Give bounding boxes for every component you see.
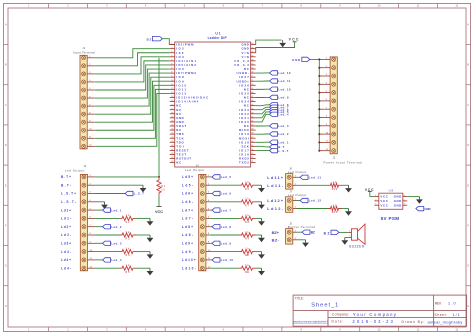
wire U1 to net Led_12 <box>256 72 270 74</box>
net flag L.S.T <box>125 191 144 195</box>
svg-text:Led_9: Led_9 <box>221 242 232 246</box>
svg-text:Ld8+: Ld8+ <box>182 225 193 229</box>
svg-text:GND: GND <box>394 203 401 207</box>
svg-text:R4: R4 <box>126 254 131 257</box>
svg-text:GND: GND <box>425 207 432 211</box>
net flag Led_11 <box>270 79 291 83</box>
svg-text:Led_3: Led_3 <box>111 242 122 246</box>
wire R2 to ground <box>136 217 150 219</box>
svg-text:29: 29 <box>171 157 173 159</box>
net flag Led_4 <box>103 258 122 262</box>
wire R10 to ground <box>256 251 262 253</box>
svg-text:45: 45 <box>251 104 253 106</box>
connector J3 Led Output <box>80 174 94 270</box>
ground R4 <box>147 252 154 259</box>
svg-text:Ld5+: Ld5+ <box>182 175 193 179</box>
wire U1 to net Led_10 <box>256 88 270 90</box>
wire BZ+ <box>297 231 303 233</box>
wire Ld12- <box>297 208 328 210</box>
svg-text:Ld3+: Ld3+ <box>61 242 71 246</box>
resistor R12 <box>328 181 342 191</box>
svg-text:53: 53 <box>251 72 253 74</box>
wire BZ to buzzer <box>339 231 348 233</box>
label J3 <box>65 164 87 173</box>
resistor R2 <box>119 214 136 224</box>
svg-text:18: 18 <box>171 112 173 114</box>
wire Ld4+ <box>95 259 103 261</box>
svg-text:A: A <box>467 23 469 27</box>
ground R10 <box>258 252 265 259</box>
wire Ld2- <box>95 234 119 236</box>
svg-text:60: 60 <box>251 43 253 45</box>
svg-text:28: 28 <box>171 153 173 155</box>
svg-text:H: H <box>467 304 469 308</box>
resistor R7 <box>239 198 256 208</box>
ground R2 <box>147 218 154 225</box>
svg-text:R10: R10 <box>245 254 250 257</box>
svg-text:R2: R2 <box>126 221 131 224</box>
ground R8 <box>258 218 265 225</box>
svg-text:24: 24 <box>171 137 173 139</box>
svg-text:Led_11: Led_11 <box>278 79 291 83</box>
net flag Led_5 <box>212 175 231 179</box>
ground R5 <box>147 268 154 275</box>
svg-text:25: 25 <box>171 141 173 143</box>
wire Ld11+ <box>297 176 301 178</box>
svg-text:5: 5 <box>171 59 172 61</box>
wire R8 to ground <box>256 217 262 219</box>
wire R9 to ground <box>256 234 262 236</box>
svg-text:R3: R3 <box>126 238 131 241</box>
svg-text:Led_12: Led_12 <box>309 199 322 203</box>
title block <box>293 295 467 326</box>
svg-text:37: 37 <box>251 137 253 139</box>
svg-text:10: 10 <box>171 80 173 82</box>
svg-text:R7: R7 <box>245 204 250 207</box>
svg-text:C: C <box>467 103 469 107</box>
svg-text:Date:: Date: <box>332 320 344 324</box>
svg-text:19: 19 <box>171 116 173 118</box>
wire Ld11- <box>297 184 328 186</box>
svg-text:Led_11: Led_11 <box>309 176 322 180</box>
svg-text:20: 20 <box>171 121 173 123</box>
svg-text:1: 1 <box>171 43 172 45</box>
net flag Led_2 <box>103 225 122 229</box>
svg-text:2: 2 <box>171 47 172 49</box>
svg-text:BZ+: BZ+ <box>272 230 280 235</box>
svg-text:4: 4 <box>404 204 405 206</box>
wire Ld4- <box>95 267 119 269</box>
svg-text:B: B <box>5 63 7 67</box>
svg-text:11: 11 <box>171 84 173 86</box>
svg-text:Led_5: Led_5 <box>221 175 232 179</box>
svg-text:BZ: BZ <box>324 231 330 235</box>
resistor R1 <box>157 177 166 196</box>
svg-text:BZ: BZ <box>147 37 152 41</box>
wire BZ- to ground <box>297 239 306 241</box>
net flag GND at U8 <box>416 206 432 210</box>
net flag Led_12 <box>300 198 321 202</box>
svg-text:32: 32 <box>251 157 253 159</box>
svg-text:R11: R11 <box>245 271 250 274</box>
ground R12 <box>345 185 352 192</box>
svg-text:8: 8 <box>171 72 172 74</box>
wire R5 to ground <box>136 267 150 269</box>
svg-text:Led_3: Led_3 <box>278 124 289 128</box>
wire VCC to U8 <box>370 196 375 198</box>
svg-text:40: 40 <box>251 125 253 127</box>
net flag Led_9 <box>270 95 289 99</box>
svg-text:Sheet_1: Sheet_1 <box>311 303 338 309</box>
net flag Led_10 <box>270 87 291 91</box>
wire R4 to ground <box>136 251 150 253</box>
svg-text:42: 42 <box>251 116 253 118</box>
net flag BZ buzzer <box>324 231 330 235</box>
svg-text:NC: NC <box>176 161 181 165</box>
net flag B.T <box>270 145 285 149</box>
connector J4 Led Output <box>199 174 211 270</box>
resistor R9 <box>239 231 256 241</box>
svg-text:D: D <box>467 143 469 147</box>
svg-text:15: 15 <box>171 100 173 102</box>
connector J2 Power Input Terminal <box>323 57 337 154</box>
svg-text:Led_10: Led_10 <box>278 87 291 91</box>
wire Ld3- <box>95 251 119 253</box>
svg-text:9: 9 <box>171 76 172 78</box>
net flag Led_8 <box>270 103 289 107</box>
net flag Led_6 <box>212 191 231 195</box>
label J5 <box>288 221 315 228</box>
svg-text:1: 1 <box>375 195 376 197</box>
resistor R10 <box>239 247 256 257</box>
svg-text:L.S.T: L.S.T <box>134 192 144 196</box>
wire B.T- <box>95 184 143 186</box>
svg-text:Buzzer Terminal: Buzzer Terminal <box>288 225 315 229</box>
svg-text:Led_1: Led_1 <box>278 140 289 144</box>
connector J6 Led Output <box>286 174 297 190</box>
junction B.T+ <box>158 176 160 178</box>
ground buzzer <box>341 238 348 245</box>
svg-text:B.T+: B.T+ <box>61 175 71 179</box>
svg-text:R13: R13 <box>332 211 338 214</box>
svg-text:TXD2: TXD2 <box>239 161 249 165</box>
svg-text:43: 43 <box>251 112 253 114</box>
svg-text:TITLE:: TITLE: <box>295 297 304 301</box>
connector J1 Input Terminal <box>80 55 94 149</box>
wire bus stubs to J2 <box>319 59 323 150</box>
power VCC at U8 <box>365 188 374 197</box>
svg-text:1.0: 1.0 <box>448 300 456 305</box>
label J6 <box>288 166 307 174</box>
svg-text:B: B <box>467 63 469 67</box>
wire U1 to net Led_3 <box>256 125 270 127</box>
svg-text:Ld6+: Ld6+ <box>182 192 193 196</box>
svg-text:Led_2: Led_2 <box>278 132 289 136</box>
power VCC at R1 <box>155 196 163 214</box>
wire Ld6+ <box>210 193 212 195</box>
svg-text:Ld9+: Ld9+ <box>182 242 193 246</box>
svg-text:Led_7: Led_7 <box>221 208 232 212</box>
svg-text:Sheet:: Sheet: <box>434 313 447 317</box>
svg-text:G: G <box>5 264 7 268</box>
net flag Led_6 <box>270 107 289 111</box>
svg-text:R9: R9 <box>245 238 250 241</box>
svg-text:L.S.T+: L.S.T+ <box>61 192 76 196</box>
svg-text:27: 27 <box>171 149 173 151</box>
wire U1 to net Led_5 <box>256 112 270 118</box>
svg-text:6: 6 <box>171 64 172 66</box>
svg-text:12: 12 <box>171 88 173 90</box>
svg-text:52: 52 <box>251 76 253 78</box>
svg-text:41: 41 <box>251 121 253 123</box>
module U8 5V PSM <box>374 188 407 221</box>
wire L.S.T+ <box>95 193 125 195</box>
wire Ld5- <box>210 184 238 186</box>
svg-text:B.T-: B.T- <box>61 183 71 187</box>
wire Ld9+ <box>210 242 212 244</box>
wire Ld8- <box>210 234 238 236</box>
svg-text:34: 34 <box>251 149 253 151</box>
net flag Led_10 <box>212 258 233 262</box>
svg-text:Your Company: Your Company <box>353 312 397 317</box>
net flag Led_4 <box>270 112 289 116</box>
svg-text:easyeda.com/amear.moghraby/she: easyeda.com/amear.moghraby/sheet-1 <box>293 319 328 323</box>
svg-text:47: 47 <box>251 96 253 98</box>
wire U1 to net Led_6 <box>256 110 270 114</box>
svg-text:R8: R8 <box>245 221 250 224</box>
net flag GND <box>292 58 301 62</box>
svg-text:Power Input Terminal: Power Input Terminal <box>324 160 363 164</box>
net flag Led_3 <box>270 124 289 128</box>
ground R11 <box>258 268 265 275</box>
ground R9 <box>258 235 265 242</box>
wire U1 to net B.T <box>256 145 270 148</box>
svg-text:2: 2 <box>375 199 376 201</box>
svg-text:BZ-: BZ- <box>272 237 280 242</box>
svg-text:E: E <box>467 183 469 187</box>
svg-text:1/1: 1/1 <box>453 312 461 317</box>
svg-text:G: G <box>467 264 469 268</box>
svg-text:35: 35 <box>251 145 253 147</box>
label J4 <box>185 163 205 172</box>
label J7 <box>288 190 307 198</box>
svg-text:R1: R1 <box>161 185 166 188</box>
resistor R4 <box>119 247 136 257</box>
svg-text:BZ: BZ <box>311 230 315 234</box>
power VCC top <box>289 37 299 41</box>
wire Ld1+ <box>95 209 103 211</box>
svg-text:R6: R6 <box>245 188 250 191</box>
svg-text:Company:: Company: <box>332 312 349 316</box>
svg-text:REV:: REV: <box>435 301 442 305</box>
wire B.T+ <box>95 176 159 178</box>
svg-text:BUZZER: BUZZER <box>349 245 364 249</box>
svg-text:Led Output: Led Output <box>185 168 205 172</box>
net flag Led_7 <box>212 208 231 212</box>
net flag Led_12 <box>270 71 291 75</box>
svg-text:Led_10: Led_10 <box>221 258 234 262</box>
net flag Led_1 <box>103 208 122 212</box>
svg-text:H: H <box>5 304 7 308</box>
connector J5 Buzzer Terminal <box>286 229 297 245</box>
svg-text:5V PSM: 5V PSM <box>381 216 400 221</box>
wire L.S.T- <box>95 201 105 203</box>
buzzer LS1 <box>348 224 365 249</box>
svg-text:2019-03-23: 2019-03-23 <box>352 319 393 324</box>
wire R13 to ground <box>342 208 349 210</box>
svg-text:22: 22 <box>171 129 173 131</box>
wire U1 to net Led_1 <box>256 141 270 143</box>
wire R11 to ground <box>256 267 262 269</box>
svg-text:Drawn By:: Drawn By: <box>402 320 425 324</box>
wire buzzer pin2 to ground <box>345 237 349 239</box>
svg-text:49: 49 <box>251 88 253 90</box>
svg-text:VCC: VCC <box>289 37 299 41</box>
net flag Led_11 <box>300 175 321 179</box>
wire Ld8+ <box>210 226 212 228</box>
wire R6 to ground <box>256 184 262 186</box>
ground R13 <box>345 209 352 216</box>
svg-text:59: 59 <box>251 47 253 49</box>
net flag Led_1 <box>270 140 289 144</box>
svg-text:5: 5 <box>404 199 405 201</box>
ground L.S.T- <box>101 202 108 209</box>
wire GND bus <box>310 59 320 150</box>
wire R12 to ground <box>342 184 349 186</box>
svg-text:U1: U1 <box>215 31 220 35</box>
svg-text:Led_8: Led_8 <box>221 225 232 229</box>
ground arrow top <box>279 40 286 47</box>
svg-text:Input Terminal: Input Terminal <box>73 51 95 55</box>
svg-text:A: A <box>5 23 7 27</box>
svg-text:55: 55 <box>251 64 253 66</box>
wire U1 to net L.S.T <box>256 149 270 151</box>
svg-text:46: 46 <box>251 100 253 102</box>
resistor R5 <box>119 264 136 274</box>
svg-text:R12: R12 <box>332 188 338 191</box>
svg-text:VCC: VCC <box>155 210 163 214</box>
svg-text:Ld10+: Ld10+ <box>182 258 196 262</box>
svg-text:7: 7 <box>171 68 172 70</box>
ground U8 <box>416 197 423 204</box>
net flag BZ at J5 <box>302 230 315 234</box>
svg-text:16: 16 <box>171 104 173 106</box>
resistor R3 <box>119 231 136 241</box>
svg-text:33: 33 <box>251 153 253 155</box>
net flag Led_2 <box>270 132 289 136</box>
svg-text:36: 36 <box>251 141 253 143</box>
wire Ld12+ <box>297 200 301 202</box>
svg-text:GND: GND <box>292 58 301 62</box>
svg-text:Led_2: Led_2 <box>111 225 122 229</box>
wire U1 to net Led_2 <box>256 133 270 135</box>
svg-text:L.S.T: L.S.T <box>278 149 288 153</box>
svg-text:4: 4 <box>171 55 172 57</box>
wire Ld6- <box>210 201 238 203</box>
wire Ld9- <box>210 251 238 253</box>
label J2 <box>324 156 363 165</box>
svg-text:amear_moghraby: amear_moghraby <box>428 319 463 324</box>
svg-text:Ld4+: Ld4+ <box>61 258 71 262</box>
net flag Led_8 <box>212 225 231 229</box>
resistor R6 <box>239 181 256 191</box>
svg-text:57: 57 <box>251 55 253 57</box>
svg-text:39: 39 <box>251 129 253 131</box>
svg-text:56: 56 <box>251 59 253 61</box>
svg-text:3: 3 <box>375 204 376 206</box>
net flag Led_7 <box>270 105 289 109</box>
ground R7 <box>258 202 265 209</box>
wire R7 to ground <box>256 201 262 203</box>
svg-text:13: 13 <box>171 92 173 94</box>
wire Ld7- <box>210 217 238 219</box>
svg-text:Ld1+: Ld1+ <box>61 208 71 212</box>
wire U1 to net Led_8 <box>256 104 270 107</box>
wire U1 GND pins loop <box>256 40 282 45</box>
svg-text:Led_6: Led_6 <box>221 192 232 196</box>
connector J7 Led Output <box>286 197 297 213</box>
resistor R13 <box>328 204 342 214</box>
ground R3 <box>147 235 154 242</box>
svg-text:48: 48 <box>251 92 253 94</box>
svg-text:Ld7+: Ld7+ <box>182 208 193 212</box>
svg-text:Ladder DIP: Ladder DIP <box>208 36 228 40</box>
wire U8 GND out <box>407 196 419 198</box>
resistor R11 <box>239 264 256 274</box>
svg-text:58: 58 <box>251 51 253 53</box>
svg-text:14: 14 <box>171 96 173 98</box>
wire J1 to U1 fan <box>95 49 170 147</box>
wire Ld10- <box>210 267 238 269</box>
svg-text:51: 51 <box>251 80 253 82</box>
wire BZ to U1 pin1 <box>162 39 174 45</box>
svg-text:26: 26 <box>171 145 173 147</box>
net flag BZ <box>147 37 152 41</box>
svg-text:23: 23 <box>171 133 173 135</box>
wire Ld10+ <box>210 259 212 261</box>
svg-text:C: C <box>5 103 7 107</box>
wire U1 VIN pins to VCC <box>256 42 295 53</box>
svg-text:3: 3 <box>171 51 172 53</box>
svg-text:6: 6 <box>404 195 405 197</box>
wire U1 to net Led_7 <box>256 107 270 110</box>
junction bus dots <box>318 58 320 151</box>
wire U1 to net Led_9 <box>256 96 270 98</box>
svg-text:Led_12: Led_12 <box>278 71 291 75</box>
IC U1 Ladder DIP <box>170 31 256 167</box>
ground R6 <box>258 185 265 192</box>
wire Ld2+ <box>95 226 103 228</box>
svg-text:Led Output: Led Output <box>65 168 85 172</box>
svg-text:U8: U8 <box>389 188 394 192</box>
svg-text:30: 30 <box>171 161 173 163</box>
wire R3 to ground <box>136 234 150 236</box>
svg-text:54: 54 <box>251 68 253 70</box>
svg-text:Led_4: Led_4 <box>111 258 122 262</box>
wire U1 to net Led_4 <box>256 114 270 122</box>
wire U1 to net Led_11 <box>256 80 270 82</box>
svg-text:R5: R5 <box>126 271 131 274</box>
label J1 <box>73 46 95 54</box>
svg-text:Led_1: Led_1 <box>111 208 122 212</box>
ground BZ- <box>302 240 309 247</box>
net flag Led_3 <box>103 241 122 245</box>
svg-text:17: 17 <box>171 108 173 110</box>
svg-text:Led_9: Led_9 <box>278 96 289 100</box>
net flag L.S.T <box>270 148 289 152</box>
wire Ld1- <box>95 217 119 219</box>
net flag Led_9 <box>212 241 231 245</box>
